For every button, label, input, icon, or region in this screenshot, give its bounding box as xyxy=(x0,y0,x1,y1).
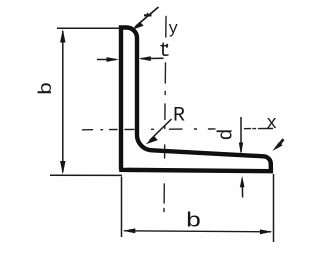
dimension b (bottom): left extension line xyxy=(121,177,123,238)
svg-text:x: x xyxy=(266,114,277,134)
centroid y-axis (dash-dot segments) xyxy=(164,17,166,212)
dimension b (bottom): right extension line xyxy=(273,174,275,242)
svg-text:b: b xyxy=(37,82,58,96)
dimension t (top): right arrow xyxy=(141,57,164,59)
dimension b (left): dimension line xyxy=(62,31,64,172)
fillet radius leader xyxy=(150,119,172,141)
toe radius label dash (top) xyxy=(144,14,152,16)
svg-text:d: d xyxy=(216,128,239,140)
dimension b (bottom): dimension line xyxy=(124,231,271,232)
label b (bottom) xyxy=(186,210,202,233)
toe radius leader (right) xyxy=(280,139,284,144)
svg-text:t: t xyxy=(159,40,171,63)
svg-text:y: y xyxy=(168,19,178,38)
dimension d: lower line with up arrow xyxy=(241,187,243,198)
dimension b (left): bottom extension line xyxy=(50,174,122,176)
arrowhead right xyxy=(260,229,273,234)
arrowhead up xyxy=(60,29,65,43)
svg-text:R: R xyxy=(173,105,185,128)
label d (rotated) xyxy=(216,128,239,140)
arrowhead down xyxy=(60,161,65,175)
dimension b (left): top extension line xyxy=(57,27,119,29)
arrowhead left xyxy=(123,228,136,233)
L-profile outline xyxy=(119,28,271,172)
svg-text:b: b xyxy=(186,210,202,233)
centroid x-axis (dash-dot segments) xyxy=(83,129,273,130)
dimension t (top): left arrow xyxy=(97,59,116,61)
dimension d (leg thickness): upper line with down arrow xyxy=(240,117,242,152)
label b (left, rotated) xyxy=(37,82,58,96)
toe radius leader (top) xyxy=(136,7,159,27)
tick after t xyxy=(166,44,169,48)
